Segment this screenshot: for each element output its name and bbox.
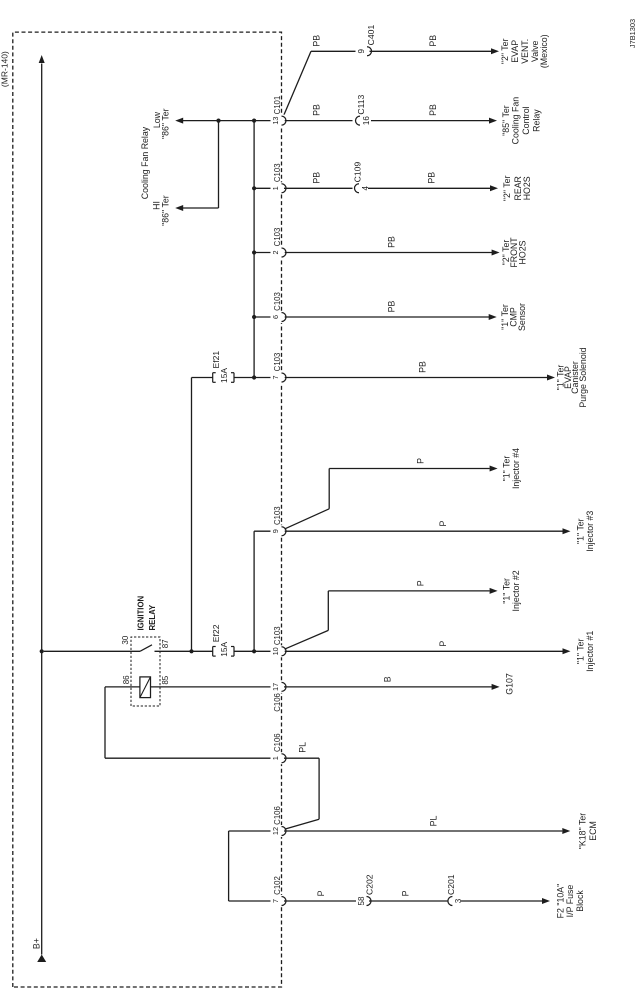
svg-text:C103: C103 [273, 506, 282, 525]
arrow to injector 1 [563, 648, 571, 654]
svg-text:C106: C106 [273, 693, 282, 712]
svg-text:C103: C103 [273, 163, 282, 182]
label Low "86" Ter [152, 108, 171, 139]
label "85" Ter Cooling Fan Control Relay [501, 97, 542, 145]
svg-text:HO2S: HO2S [522, 176, 532, 200]
wire coil top run [104, 687, 106, 758]
wire diagonal C103-9 split [283, 509, 329, 530]
svg-text:7: 7 [271, 899, 280, 903]
label "2" Ter FRONT HO2S [501, 237, 528, 268]
svg-text:ECM: ECM [588, 821, 598, 841]
label F2 "10A" I/P Fuse Block [556, 884, 586, 919]
svg-text:17: 17 [271, 683, 280, 691]
connector 9 C103 [271, 506, 286, 537]
label PB (C109-HO2S) [427, 172, 437, 184]
svg-text:EVAP: EVAP [510, 40, 520, 63]
label "2" Ter EVAP VENT. Valve (Mexico) [500, 34, 549, 68]
svg-text:2: 2 [271, 250, 280, 254]
wire coil 86 up [105, 686, 140, 688]
arrow to REAR HO2S [490, 185, 498, 191]
wire PL loop bottom [318, 758, 320, 819]
label Cooling Fan Relay [140, 126, 150, 199]
junction B+ / relay drop [40, 649, 44, 653]
wire CMP drop [254, 316, 489, 318]
connector C202 pin 58 [356, 874, 374, 906]
svg-text:B: B [382, 676, 392, 682]
wire fuse-block drop lower [461, 900, 543, 902]
svg-text:RELAY: RELAY [148, 604, 157, 631]
svg-text:Injector #3: Injector #3 [585, 511, 595, 552]
svg-text:58: 58 [357, 896, 366, 905]
wire injector3 drop upper [254, 530, 270, 532]
svg-text:Cooling Fan Relay: Cooling Fan Relay [140, 126, 150, 199]
pin 30 [121, 635, 130, 644]
arrow to injector 4 [490, 466, 498, 472]
label P (injector3) [438, 521, 448, 527]
B+ source triangle [37, 955, 46, 963]
label PB (EVAP purge) [418, 361, 428, 373]
wire diagonal C101 split [282, 51, 312, 120]
label Ef21 [211, 351, 221, 369]
svg-text:7: 7 [271, 375, 280, 379]
wire diagonal C103-10 split [283, 630, 328, 649]
arrow to FRONT HO2S [492, 250, 500, 256]
svg-text:10: 10 [271, 647, 280, 655]
pin 85 [161, 675, 170, 684]
svg-text:Sensor: Sensor [517, 303, 527, 331]
label P (injector1) [438, 641, 448, 647]
connector 7 C102 [271, 876, 286, 907]
wire Ef22 out [234, 650, 271, 652]
label B+ [31, 938, 41, 949]
svg-text:Block: Block [575, 890, 585, 912]
svg-text:B+: B+ [31, 938, 41, 949]
svg-text:(MR-140): (MR-140) [0, 51, 10, 87]
wire relay 87 out [155, 650, 213, 652]
wire G107 drop [284, 686, 492, 688]
label "1" Ter EVAP Canister Purge Solenoid [555, 347, 588, 407]
svg-text:C101: C101 [273, 96, 282, 115]
figure id J7B1303 [628, 19, 637, 48]
svg-text:I/P Fuse: I/P Fuse [565, 885, 575, 918]
connector 10 C103 [271, 626, 286, 657]
label PB (CMP) [386, 300, 396, 312]
connector 17 C106 [271, 681, 286, 712]
wire B+ bus [41, 64, 43, 955]
wire PL loop diagonal [284, 819, 320, 829]
junction bus1 / REAR-HO2S drop [252, 186, 256, 190]
wire fuse-block drop upper [284, 900, 357, 902]
svg-text:PB: PB [312, 104, 322, 116]
svg-text:16: 16 [362, 116, 371, 125]
svg-text:12: 12 [271, 827, 280, 835]
svg-text:1: 1 [271, 756, 280, 760]
fuse Ef21 15A [213, 368, 234, 383]
svg-text:C106: C106 [273, 806, 282, 825]
label PB (FRONT HO2S) [386, 236, 396, 248]
wire injector1 drop [284, 650, 563, 652]
connector 6 C103 [271, 292, 286, 323]
wire HI tap run [218, 121, 220, 208]
svg-text:"2" Ter: "2" Ter [502, 175, 512, 201]
svg-text:C103: C103 [273, 228, 282, 247]
svg-text:Relay: Relay [532, 109, 542, 132]
label PB (C401-valve) [428, 35, 438, 47]
svg-text:P: P [401, 890, 411, 896]
label "1" Ter Injector #2 [502, 570, 521, 611]
relay contact blade [140, 645, 152, 652]
svg-text:P: P [438, 521, 448, 527]
wire 1C106 drop outside [284, 757, 319, 759]
fuse Ef22 15A [213, 641, 234, 656]
connector 7 C103 [271, 353, 286, 384]
wire relay 30 feed [44, 650, 140, 652]
svg-text:C102: C102 [273, 876, 282, 895]
svg-text:9: 9 [357, 49, 366, 54]
wire ECM drop inside [229, 830, 271, 832]
connector C109 pin 4 [353, 162, 371, 194]
arrow to ECM [562, 828, 570, 834]
svg-text:PB: PB [312, 35, 322, 47]
connector C401 pin 9 [356, 25, 377, 57]
svg-text:PL: PL [297, 742, 307, 753]
relay coil [140, 677, 151, 698]
svg-text:PB: PB [427, 172, 437, 184]
harness boundary (MR-140) dashed box [13, 32, 282, 987]
svg-text:P: P [316, 890, 326, 896]
arrow to Cooling Fan Relay HI [175, 205, 183, 211]
svg-text:C109: C109 [353, 162, 363, 183]
svg-text:15A: 15A [219, 641, 229, 656]
wire HI riser [183, 207, 219, 209]
junction bus1 / EVAP-purge drop [252, 375, 256, 379]
svg-text:C401: C401 [366, 25, 376, 46]
arrow to injector 2 [490, 588, 498, 594]
connector 12 C106 [271, 806, 286, 837]
svg-text:HO2S: HO2S [517, 240, 527, 264]
svg-text:"86" Ter: "86" Ter [161, 195, 171, 226]
label P (injector2) [416, 580, 426, 586]
svg-text:Injector #1: Injector #1 [585, 631, 595, 672]
svg-text:(Mexico): (Mexico) [539, 34, 549, 68]
connector C113 pin 16 [353, 94, 372, 126]
wire Ef21 out [234, 377, 271, 379]
svg-text:Ef22: Ef22 [211, 624, 221, 642]
junction bus1 / cooling-fan drop [252, 118, 256, 122]
connector 1 C106 [271, 733, 286, 764]
wire REAR-HO2S drop mid [284, 187, 354, 189]
connector C201 pin 3 [446, 874, 463, 906]
label PB (C103-C109) [312, 172, 322, 184]
wire cooling-fan Low drop [183, 120, 271, 122]
label IGNITION RELAY [136, 595, 157, 630]
svg-text:86: 86 [122, 675, 131, 684]
wire inside link top [228, 831, 230, 901]
label B (G107) [382, 676, 392, 682]
junction bus1 / CMP drop [252, 315, 256, 319]
svg-text:87: 87 [161, 639, 170, 648]
label HI "86" Ter [152, 195, 171, 226]
junction relay out / Ef21 feed [189, 649, 193, 653]
svg-text:Control: Control [521, 106, 531, 134]
label "1" Ter Injector #4 [502, 448, 521, 489]
svg-text:VENT.: VENT. [520, 39, 530, 64]
label G107 [505, 673, 515, 695]
label (MR-140) [0, 51, 10, 87]
svg-text:13: 13 [271, 117, 280, 125]
wire injector2 drop [328, 590, 489, 592]
svg-text:Cooling Fan: Cooling Fan [511, 97, 521, 145]
wire EVAP-VENT drop lower [370, 50, 492, 52]
wire inside link drop [229, 900, 271, 902]
svg-text:C103: C103 [273, 292, 282, 311]
svg-text:C113: C113 [356, 94, 366, 114]
svg-text:C103: C103 [273, 626, 282, 645]
svg-text:9: 9 [271, 529, 280, 533]
label P (C202-C201) [401, 890, 411, 896]
arrow to EVAP purge solenoid [547, 375, 555, 381]
wire EVAP-VENT drop upper [311, 50, 357, 52]
svg-text:PB: PB [418, 361, 428, 373]
svg-text:P: P [416, 458, 426, 464]
wire bus segment 2 [253, 531, 255, 651]
svg-text:6: 6 [271, 315, 280, 319]
svg-text:PB: PB [428, 104, 438, 116]
wire ECM drop outside [284, 830, 562, 832]
svg-text:30: 30 [121, 635, 130, 644]
svg-text:Injector #4: Injector #4 [511, 448, 521, 489]
svg-text:15A: 15A [219, 368, 229, 383]
wire injector3 drop lower [284, 530, 563, 532]
wire cooling-fan-control drop [284, 120, 490, 122]
svg-text:G107: G107 [505, 673, 515, 695]
label PL (1 C106) [297, 742, 307, 753]
wire injector4 top run [328, 469, 330, 509]
svg-text:C106: C106 [273, 733, 282, 752]
wire injector4 drop [329, 468, 489, 470]
svg-text:Ef21: Ef21 [211, 351, 221, 369]
label P (injector4) [416, 458, 426, 464]
arrow to Cooling Fan Relay Low [175, 118, 183, 124]
svg-text:"2" Ter: "2" Ter [500, 38, 510, 64]
arrow to injector 3 [563, 528, 571, 534]
wire EVAP-purge drop upper [192, 377, 213, 379]
wire bus segment 1 [253, 121, 255, 378]
svg-text:1: 1 [271, 186, 280, 190]
relay box (ignition relay) [131, 637, 160, 706]
svg-text:PL: PL [428, 815, 438, 826]
svg-text:PB: PB [428, 35, 438, 47]
svg-text:PB: PB [386, 300, 396, 312]
wire coil 85 down [151, 686, 271, 688]
svg-text:"K18" Ter: "K18" Ter [578, 813, 588, 849]
svg-text:C202: C202 [364, 874, 374, 895]
wire 1C106 drop inside [105, 757, 271, 759]
arrow to G107 [492, 684, 500, 690]
junction Low / HI tap [216, 118, 220, 122]
label "2" Ter REAR HO2S [502, 175, 532, 201]
svg-text:C103: C103 [273, 353, 282, 372]
label P (C102-C202) [316, 890, 326, 896]
wire injector2 top run [327, 591, 329, 631]
wire FRONT-HO2S drop [254, 252, 492, 254]
arrow to CMP sensor [489, 314, 497, 320]
svg-text:Purge Solenoid: Purge Solenoid [578, 347, 588, 407]
label PB (C113-relay) [428, 104, 438, 116]
wire fuse-block drop mid [369, 900, 448, 902]
svg-text:"85" Ter: "85" Ter [501, 105, 511, 136]
svg-text:Injector #2: Injector #2 [511, 570, 521, 611]
svg-text:PB: PB [386, 236, 396, 248]
arrow to fuse block [542, 898, 550, 904]
arrow to cooling fan control relay [489, 118, 497, 124]
svg-text:F2 "10A": F2 "10A" [556, 884, 566, 919]
svg-text:IGNITION: IGNITION [136, 595, 145, 630]
pin 86 [122, 675, 131, 684]
svg-text:P: P [438, 641, 448, 647]
connector 13 C101 [271, 96, 286, 127]
arrow to EVAP VENT valve [491, 48, 499, 54]
pin 87 [161, 639, 170, 648]
connector 2 C103 [271, 228, 286, 259]
wire Ef21 feed run [191, 378, 193, 652]
svg-text:"86" Ter: "86" Ter [161, 108, 171, 139]
svg-text:P: P [416, 580, 426, 586]
svg-text:J7B1303: J7B1303 [628, 19, 637, 48]
svg-text:PB: PB [312, 172, 322, 184]
label "K18" Ter ECM [578, 813, 598, 849]
junction bus1 / FRONT-HO2S drop [252, 250, 256, 254]
label "1" Ter CMP Sensor [500, 303, 527, 331]
label PL (ECM) [428, 815, 438, 826]
svg-text:C201: C201 [446, 874, 456, 895]
label Ef22 [211, 624, 221, 642]
svg-text:85: 85 [161, 675, 170, 684]
junction bus2 / relay drop [252, 649, 256, 653]
label "1" Ter Injector #1 [576, 631, 595, 672]
label PB (C101-C113) [312, 104, 322, 116]
wire EVAP-purge drop lower [284, 377, 547, 379]
wire REAR-HO2S drop upper [254, 187, 270, 189]
label "1" Ter Injector #3 [576, 511, 595, 552]
arrow B+ continuation [39, 55, 45, 63]
connector 1 C103 [271, 163, 286, 194]
wire REAR-HO2S drop lower [368, 187, 491, 189]
label PB (C101-C401) [312, 35, 322, 47]
